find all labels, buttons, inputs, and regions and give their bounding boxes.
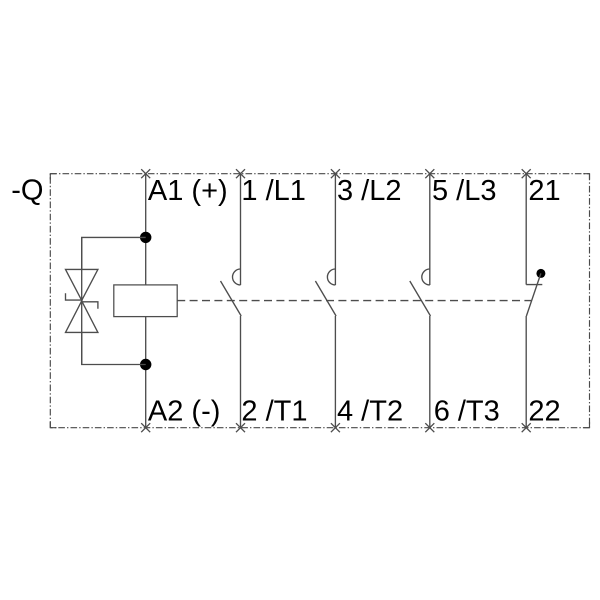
terminal cross 2/T1: [236, 423, 245, 432]
label -Q: [11, 175, 43, 207]
main contact pole 5/L3-6/T3 : lower terminal wire 6/T3: [429, 316, 431, 428]
main contact pole 3/L2-4/T2 : moving blade: [315, 281, 336, 316]
terminal cross A2: [141, 423, 150, 432]
svg-text:3 /L2: 3 /L2: [337, 175, 402, 207]
wire suppressor top branch: [82, 237, 146, 269]
main contact pole 5/L3-6/T3 : moving blade: [410, 281, 431, 316]
main contact pole 1/L1-2/T1 : moving blade: [221, 281, 242, 316]
terminal cross 1/L1: [236, 169, 245, 178]
label 21: [528, 175, 560, 207]
terminal cross 6/T3: [425, 423, 434, 432]
svg-text:6 /T3: 6 /T3: [434, 396, 500, 428]
label 3 /L2: [337, 175, 402, 207]
enclosure outline -Q (dash-dot border): [50, 174, 589, 428]
label 1 /L1: [241, 175, 306, 207]
svg-text:21: 21: [528, 175, 560, 207]
svg-text:1 /L1: 1 /L1: [241, 175, 306, 207]
label A1 (+): [148, 175, 228, 207]
main contact pole 1/L1-2/T1 : upper terminal wire 1/L1: [233, 174, 241, 285]
surge suppressor (bidirectional TVS diode): [66, 237, 98, 364]
label 4 /T2: [337, 396, 403, 428]
terminal cross 5/L3: [425, 169, 434, 178]
auxiliary NC contact 21-22 : lower terminal wire 22: [525, 316, 527, 428]
mechanical linkage (dashed actuation line from coil to contacts): [177, 300, 531, 302]
terminal cross A1: [141, 169, 150, 178]
auxiliary NC contact 21-22 : fixed contact dot: [536, 269, 545, 278]
wire A2 terminal (bottom coil lead): [145, 317, 147, 428]
main contact pole 3/L2-4/T2 : upper terminal wire 3/L2: [327, 174, 335, 285]
terminal cross 21: [522, 169, 531, 178]
junction dot (A2 branch): [140, 359, 151, 370]
junction dot (A1 branch): [140, 232, 151, 243]
svg-text:A2 (-): A2 (-): [148, 396, 221, 428]
wire suppressor bottom branch: [82, 332, 146, 364]
svg-text:5 /L3: 5 /L3: [432, 175, 497, 207]
svg-text:-Q: -Q: [11, 175, 43, 207]
terminal cross 22: [522, 423, 531, 432]
label 6 /T3: [434, 396, 500, 428]
wire A1 terminal (top coil lead): [145, 174, 147, 285]
auxiliary NC contact 21-22 : upper terminal wire 21: [526, 174, 542, 285]
label 22: [528, 396, 560, 428]
coil K (operating coil rectangle): [114, 285, 177, 317]
label 5 /L3: [432, 175, 497, 207]
auxiliary NC contact 21-22 : moving blade: [526, 273, 541, 316]
main contact pole 1/L1-2/T1 : lower terminal wire 2/T1: [240, 316, 242, 428]
main contact pole 5/L3-6/T3 : upper terminal wire 5/L3: [422, 174, 430, 285]
label 2 /T1: [241, 396, 307, 428]
terminal cross 4/T2: [331, 423, 340, 432]
svg-text:2 /T1: 2 /T1: [241, 396, 307, 428]
svg-text:22: 22: [528, 396, 560, 428]
svg-text:A1 (+): A1 (+): [148, 175, 228, 207]
main contact pole 3/L2-4/T2 : lower terminal wire 4/T2: [334, 316, 336, 428]
label A2 (-): [148, 396, 221, 428]
terminal cross 3/L2: [331, 169, 340, 178]
svg-text:4 /T2: 4 /T2: [337, 396, 403, 428]
